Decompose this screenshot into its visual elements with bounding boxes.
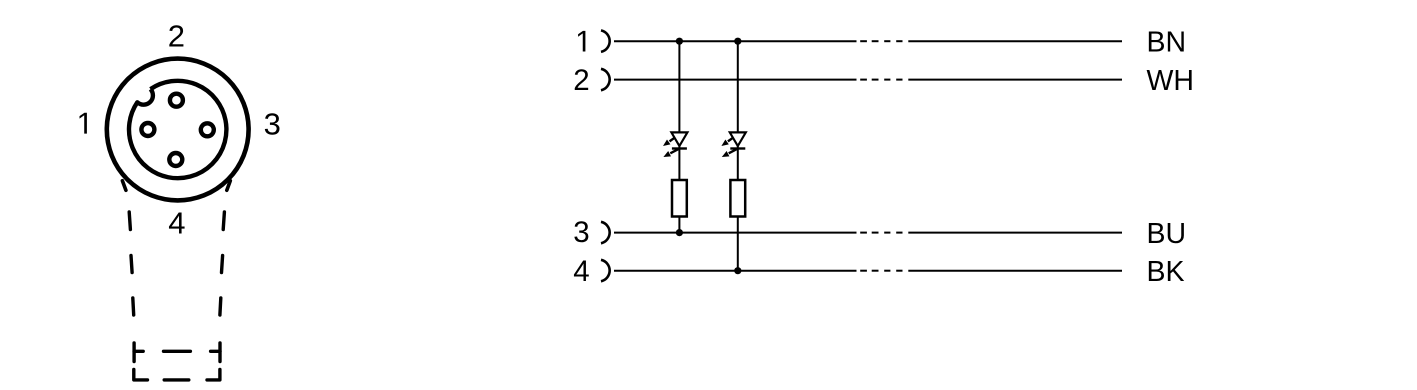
pin label 1 bbox=[80, 113, 87, 134]
wire 2 cable-break dashes bbox=[860, 79, 902, 81]
svg-text:BU: BU bbox=[1147, 218, 1187, 250]
wire 4 left segment bbox=[614, 270, 857, 272]
LED D2 arrow 2 bbox=[729, 149, 737, 153]
pin hole 1 (left) bbox=[141, 123, 154, 136]
cap top middle dash bbox=[164, 350, 191, 353]
LED D2 arrow 1 bbox=[728, 138, 733, 142]
svg-text:WH: WH bbox=[1147, 65, 1194, 97]
wire 2 left segment bbox=[614, 79, 857, 81]
connector inner circle with keyway notch bbox=[129, 81, 226, 178]
svg-text:4: 4 bbox=[573, 255, 589, 288]
pin 3 socket arc bbox=[601, 222, 610, 244]
svg-text:2: 2 bbox=[168, 19, 185, 54]
svg-text:3: 3 bbox=[573, 216, 589, 249]
cap top-left corner dash bbox=[134, 343, 143, 362]
wire 1 right segment bbox=[908, 40, 1122, 42]
cap bottom-right corner dash bbox=[207, 370, 220, 380]
cap bottom-left corner dash bbox=[134, 370, 148, 380]
svg-text:2: 2 bbox=[573, 64, 589, 97]
branch wire 1 (vertical, pin1 to pin3) bbox=[678, 41, 680, 180]
wire 3 right segment bbox=[908, 232, 1122, 234]
svg-text:BK: BK bbox=[1147, 256, 1185, 288]
dashed body taper left bbox=[129, 212, 134, 315]
pin hole 2 (top) bbox=[170, 94, 183, 107]
wire 2 right segment bbox=[908, 79, 1122, 81]
LED D1 cathode bar bbox=[672, 147, 687, 149]
junction dot wire1/branch1 bbox=[676, 38, 683, 45]
junction dot wire4/branch2 bbox=[734, 267, 741, 274]
wire 3 cable-break dashes bbox=[860, 232, 902, 234]
LED D2 triangle bbox=[730, 132, 746, 146]
pin hole 3 (right) bbox=[201, 123, 214, 136]
LED D2 cathode bar bbox=[730, 147, 745, 149]
svg-text:3: 3 bbox=[264, 106, 281, 141]
resistor R2 bbox=[730, 180, 745, 217]
branch wire 2 (vertical, pin1 to pin4) bbox=[737, 41, 739, 180]
cap bottom middle dash bbox=[164, 378, 189, 381]
junction dot wire1/branch2 bbox=[734, 38, 741, 45]
wire 1 left segment bbox=[614, 40, 857, 42]
wire 3 left segment bbox=[614, 232, 857, 234]
connector outer circle bbox=[107, 59, 249, 201]
LED D1 arrow 2 bbox=[670, 149, 678, 153]
body tick left on circle bbox=[122, 181, 126, 191]
cap top-right corner dash bbox=[211, 343, 220, 362]
LED D1 bbox=[663, 132, 687, 157]
junction dot wire3/branch1 bbox=[676, 229, 683, 236]
svg-text:4: 4 bbox=[168, 206, 185, 241]
pin hole 4 (bottom) bbox=[169, 153, 182, 166]
wire 4 cable-break dashes bbox=[860, 270, 902, 272]
LED D1 triangle bbox=[671, 132, 687, 146]
wire 1 cable-break dashes bbox=[860, 40, 902, 42]
wire 4 right segment bbox=[908, 270, 1122, 272]
body tick right on circle bbox=[227, 181, 231, 191]
resistor R1 bbox=[672, 180, 687, 217]
pin 2 socket arc bbox=[601, 69, 610, 91]
LED D1 arrow 1 bbox=[670, 138, 675, 142]
pin 4 socket arc bbox=[601, 260, 610, 282]
pin 1 socket arc bbox=[601, 30, 610, 52]
LED D2 bbox=[721, 132, 745, 157]
dashed body taper right bbox=[220, 212, 225, 315]
schematic pin number 1 bbox=[578, 31, 585, 52]
svg-text:BN: BN bbox=[1147, 26, 1187, 58]
